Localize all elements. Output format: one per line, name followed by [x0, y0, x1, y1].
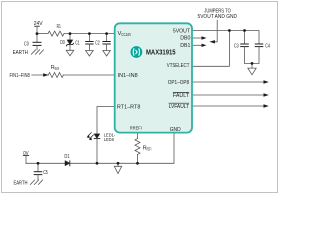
svg-text:24V: 24V — [34, 21, 43, 27]
svg-text:VTSELECT: VTSELECT — [167, 63, 190, 69]
arrowhead: DB0 jumper — [202, 36, 207, 39]
svg-text:0V: 0V — [23, 151, 29, 157]
output arrow LVFAULT — [192, 105, 264, 107]
svg-text:C2: C2 — [95, 40, 100, 46]
node: 24V / C0 junction — [36, 32, 39, 35]
supply terminal 0V — [23, 155, 28, 157]
wire: FIN input to IN1-IN8 pin — [32, 74, 49, 76]
resistor RINX — [48, 73, 63, 78]
svg-text:DB1: DB1 — [180, 43, 190, 49]
jumper arrow DB1 — [192, 44, 202, 46]
svg-text:MAX31915: MAX31915 — [146, 47, 176, 56]
capacitor C0 — [36, 34, 38, 43]
annotation arrow (jumpers) — [214, 20, 217, 42]
arrowhead: DB1 jumper — [202, 44, 207, 47]
node: C1 junction — [88, 32, 91, 35]
arrowhead: FIN input — [43, 73, 48, 76]
node: C3 C4 bottom junction — [251, 62, 254, 65]
resistor RREFI — [137, 133, 139, 139]
node: C3 junction — [243, 29, 246, 32]
node: LED junction — [96, 162, 99, 165]
wire: top rail 24V to VCC24V pin — [37, 33, 48, 35]
ground (below C2) — [103, 51, 111, 57]
svg-text:LVFAULT: LVFAULT — [169, 104, 190, 110]
overline FAULT — [173, 91, 189, 93]
wire: RT1-RT8 pin down to LED — [97, 107, 115, 134]
earth ground (bottom left) — [30, 180, 42, 184]
svg-text:LED8: LED8 — [104, 137, 114, 143]
earth ground (top left) — [31, 50, 43, 54]
svg-text:RREFI: RREFI — [130, 125, 142, 131]
diode D1 — [65, 161, 70, 166]
capacitor C2 — [106, 34, 108, 42]
node: RREFI junction — [136, 162, 139, 165]
svg-text:REFI: REFI — [147, 147, 152, 152]
supply terminal 24V — [35, 25, 40, 27]
zener diode D0 — [69, 34, 71, 40]
svg-text:CC24V: CC24V — [121, 32, 131, 37]
resistor R1 — [48, 31, 64, 36]
ground (below C3 C4) — [248, 68, 256, 75]
svg-text:EARTH: EARTH — [14, 180, 28, 186]
svg-text:5VOUT AND GND: 5VOUT AND GND — [198, 14, 238, 20]
ground (below D0) — [66, 50, 74, 56]
node: VTSELECT / 5VOUT junction — [228, 29, 231, 32]
node: C2 junction — [105, 32, 108, 35]
svg-text:RT1–RT8: RT1–RT8 — [117, 104, 140, 110]
wire: 5VOUT rail — [192, 31, 259, 45]
svg-text:R1: R1 — [57, 24, 61, 30]
wire: bottom rail 0V to GND pin — [26, 133, 174, 164]
ground (bottom rail stub) — [117, 163, 119, 166]
jumper arrow DB0 — [192, 37, 202, 39]
svg-text:C0: C0 — [24, 42, 29, 48]
capacitor C4 — [255, 43, 263, 45]
svg-text:GND: GND — [170, 127, 181, 133]
capacitor C5 — [37, 163, 39, 171]
svg-text:5VOUT: 5VOUT — [173, 29, 191, 35]
Maxim logo — [131, 46, 143, 58]
LED LED1-LED8 — [94, 134, 100, 139]
IC U1 MAX31915 body — [115, 23, 192, 132]
svg-text:C4: C4 — [265, 44, 270, 50]
svg-text:INX: INX — [55, 66, 60, 71]
svg-text:DB0: DB0 — [180, 36, 190, 42]
svg-text:FIN1–FIN8: FIN1–FIN8 — [10, 73, 30, 79]
arrowhead: annotation arrow — [209, 40, 215, 43]
wire: C3 C4 bottoms to ground — [245, 63, 260, 68]
arrowhead: FAULT — [264, 93, 269, 96]
capacitor C1 — [88, 34, 90, 42]
node: ground stub junction — [117, 162, 120, 165]
ground (below C1) — [86, 51, 94, 57]
arrowhead: LVFAULT — [264, 104, 269, 107]
node: D0 junction — [69, 32, 72, 35]
svg-text:IN1–IN8: IN1–IN8 — [118, 73, 138, 79]
svg-text:C1: C1 — [75, 40, 80, 46]
node: C5 junction — [37, 162, 40, 165]
capacitor C3 — [244, 31, 246, 45]
svg-text:EARTH: EARTH — [13, 50, 28, 56]
svg-text:D1: D1 — [64, 154, 69, 160]
wire: VTSELECT to 5VOUT rail — [192, 31, 229, 67]
svg-text:D0: D0 — [60, 40, 65, 46]
svg-text:C5: C5 — [43, 170, 48, 176]
svg-text:C3: C3 — [234, 44, 239, 50]
svg-text:FAULT: FAULT — [173, 93, 190, 99]
output arrow OP1-OP8 — [192, 81, 264, 83]
output arrow FAULT — [192, 94, 264, 96]
arrowhead: OP1-OP8 — [264, 80, 269, 83]
overline LVFAULT — [169, 102, 190, 104]
svg-text:OP1–OP8: OP1–OP8 — [168, 80, 189, 86]
